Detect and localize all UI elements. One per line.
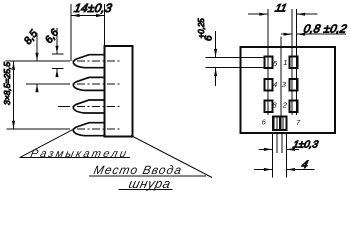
dimension 8,5 line bbox=[36, 33, 38, 61]
leader to razmykateli label bbox=[20, 130, 73, 158]
pin 4 centerline bbox=[62, 128, 120, 130]
svg-text:0,8 ±0,2: 0,8 ±0,2 bbox=[302, 23, 348, 36]
left column centerline bbox=[267, 9, 269, 115]
dimension 3x8,5=25,5 line bbox=[13, 61, 15, 129]
label shnura underline bbox=[119, 188, 173, 190]
svg-text:11: 11 bbox=[274, 3, 288, 15]
bottom slot inner lines bbox=[277, 117, 283, 131]
slot R2 bbox=[290, 79, 298, 91]
pin 2 centerline bbox=[62, 83, 120, 85]
pin 3 centerline extension bbox=[58, 106, 62, 108]
extension lines below panel outer bbox=[272, 134, 286, 178]
slot R3 bbox=[290, 101, 298, 113]
right column slot lines bbox=[292, 9, 296, 115]
dimension 6+0,25 line bbox=[215, 31, 217, 57]
pin 3 centerline bbox=[62, 106, 120, 108]
svg-text:1±0,3: 1±0,3 bbox=[292, 140, 320, 151]
tick pin1 top bbox=[52, 53, 64, 55]
svg-text:8,5: 8,5 bbox=[22, 28, 40, 47]
connector body (left view) bbox=[105, 46, 133, 137]
label mesto vvoda underline bbox=[89, 175, 206, 177]
pin 2 centerline extension bbox=[26, 83, 62, 85]
dimension 4 bbox=[254, 169, 272, 171]
label razmykateli underline bbox=[20, 157, 131, 159]
slot bottom left bbox=[273, 117, 280, 131]
pin 3 bbox=[73, 100, 104, 113]
pin 4 bbox=[73, 123, 104, 136]
svg-text:шнура: шнура bbox=[127, 176, 172, 191]
pin 1 centerline extension bbox=[5, 60, 62, 62]
dimension 14±0,3 extension lines bbox=[70, 4, 72, 61]
leader to mesto vvoda label bbox=[131, 136, 212, 178]
pin 1 bbox=[73, 55, 104, 68]
dimension 6,6 line bbox=[56, 28, 58, 54]
pin 2 bbox=[73, 77, 104, 90]
svg-text:14±0,3: 14±0,3 bbox=[73, 1, 113, 15]
svg-text:+0,25: +0,25 bbox=[197, 18, 206, 39]
tick pin1 bottom bbox=[52, 68, 64, 70]
svg-text:4: 4 bbox=[273, 80, 277, 89]
socket panel (right view) bbox=[241, 47, 336, 133]
slot bottom right bbox=[280, 117, 286, 131]
dimension 1±0,3 bbox=[259, 148, 272, 150]
channel lines to slot L1 bbox=[206, 57, 265, 67]
slot R1 bbox=[290, 57, 298, 69]
svg-text:Место Ввода: Место Ввода bbox=[92, 163, 183, 177]
svg-text:2: 2 bbox=[282, 101, 288, 110]
slot L3 bbox=[265, 101, 273, 113]
svg-text:Размыкатели: Размыкатели bbox=[29, 148, 129, 160]
svg-text:6,6: 6,6 bbox=[43, 27, 61, 46]
slot L2 bbox=[265, 79, 273, 91]
extension lines below panel inner bbox=[277, 134, 282, 153]
middle centerline bbox=[280, 37, 282, 132]
svg-text:3×8,5=25,5: 3×8,5=25,5 bbox=[2, 62, 12, 105]
dimension 11 bbox=[248, 13, 268, 15]
svg-text:1: 1 bbox=[283, 58, 287, 67]
dimension 0,8±0,2 bbox=[281, 33, 292, 35]
pin 4 centerline extension bbox=[7, 128, 63, 130]
pin 1 centerline bbox=[62, 60, 120, 62]
dimension 14±0,3 line bbox=[71, 15, 104, 17]
slot L1 bbox=[265, 57, 273, 69]
